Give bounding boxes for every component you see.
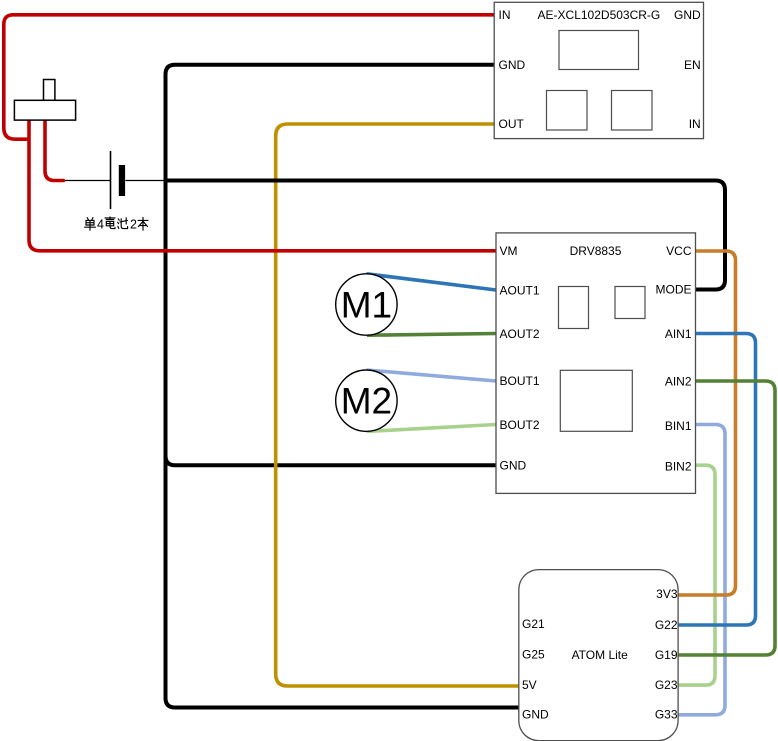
battery positive terminal (long line)	[110, 151, 112, 209]
wire GND branch to DRV8835 GND (black)	[166, 446, 497, 465]
svg-text:BIN1: BIN1	[665, 419, 692, 433]
svg-text:BIN2: BIN2	[665, 459, 692, 473]
svg-text:AE-XCL102D503CR-G: AE-XCL102D503CR-G	[538, 8, 661, 22]
switch body	[14, 100, 75, 120]
wire GND: regulator GND to ATOM Lite GND (black)	[166, 65, 520, 708]
svg-text:IN: IN	[689, 117, 701, 131]
wire VCC to ATOM Lite 3V3 (orange)	[679, 251, 736, 595]
svg-text:GND: GND	[674, 8, 701, 22]
svg-text:EN: EN	[684, 58, 701, 72]
battery label digits 4 and 2	[97, 218, 137, 232]
regulator inner rect top	[559, 31, 639, 70]
battery negative terminal (thick bar)	[119, 165, 125, 196]
wire OUT: regulator OUT to ATOM Lite 5V (dark yellow)	[276, 124, 520, 686]
wire battery negative to DRV8835 MODE (black)	[166, 181, 726, 290]
svg-text:MODE: MODE	[656, 282, 692, 296]
battery label 単4電池2本	[85, 217, 148, 230]
svg-text:G25: G25	[522, 647, 545, 661]
wire AIN2 to ATOM Lite G19 (dark green)	[679, 381, 776, 655]
svg-text:3V3: 3V3	[656, 587, 678, 601]
svg-text:G19: G19	[655, 648, 678, 662]
svg-text:M2: M2	[341, 381, 392, 422]
ATOM Lite labels	[522, 587, 678, 721]
wire M1 to AOUT2 (dark green)	[367, 334, 496, 336]
DRV8835 inner rect A	[559, 287, 589, 329]
svg-text:GND: GND	[522, 708, 549, 722]
svg-text:AOUT2: AOUT2	[500, 327, 540, 341]
svg-text:DRV8835: DRV8835	[570, 244, 622, 258]
svg-text:AOUT1: AOUT1	[500, 283, 540, 297]
svg-text:G23: G23	[655, 678, 678, 692]
regulator box AE-XCL102D503CR-G	[494, 2, 703, 138]
svg-text:4: 4	[97, 218, 104, 232]
svg-text:GND: GND	[499, 58, 526, 72]
wire M2 to BOUT2 (light green)	[367, 425, 496, 432]
svg-text:5V: 5V	[522, 678, 537, 692]
svg-text:GND: GND	[500, 459, 527, 473]
svg-text:M1: M1	[341, 285, 392, 326]
wire switch pin1 to regulator IN (dark red)	[4, 15, 494, 139]
regulator labels	[499, 8, 702, 131]
DRV8835 inner rect B	[615, 287, 645, 319]
svg-text:IN: IN	[499, 8, 511, 22]
battery lead wires (thin)	[65, 180, 166, 182]
wire M2 to BOUT1 (light blue)	[366, 370, 496, 381]
svg-text:ATOM Lite: ATOM Lite	[572, 648, 629, 662]
svg-text:VM: VM	[500, 244, 518, 258]
wire BIN2 to ATOM Lite G23 (light green)	[679, 465, 716, 685]
DRV8835 box	[496, 233, 696, 494]
ATOM Lite box	[519, 570, 678, 741]
regulator inner square left	[547, 91, 588, 131]
svg-text:OUT: OUT	[499, 117, 525, 131]
motor M1	[336, 274, 397, 335]
svg-text:BOUT2: BOUT2	[500, 418, 540, 432]
motor M2	[336, 370, 397, 431]
svg-text:G21: G21	[522, 617, 545, 631]
svg-text:G22: G22	[655, 618, 678, 632]
wire switch pin2 to battery positive (dark red)	[45, 118, 65, 181]
DRV8835 labels	[500, 244, 692, 473]
switch knob	[44, 80, 55, 101]
svg-text:VCC: VCC	[666, 244, 692, 258]
wire BIN1 to ATOM Lite G33 (light blue)	[679, 425, 726, 715]
svg-text:AIN2: AIN2	[665, 374, 692, 388]
DRV8835 inner rect C	[560, 370, 632, 431]
wire M1 to AOUT1 (blue)	[366, 274, 496, 290]
regulator inner square right	[612, 91, 653, 131]
svg-text:G33: G33	[655, 708, 678, 722]
svg-text:BOUT1: BOUT1	[500, 374, 540, 388]
wire switch pin1 to DRV8835 VM (dark red)	[29, 118, 496, 251]
svg-text:AIN1: AIN1	[665, 327, 692, 341]
svg-text:2: 2	[130, 218, 137, 232]
wire AIN1 to ATOM Lite G22 (blue)	[679, 334, 756, 626]
